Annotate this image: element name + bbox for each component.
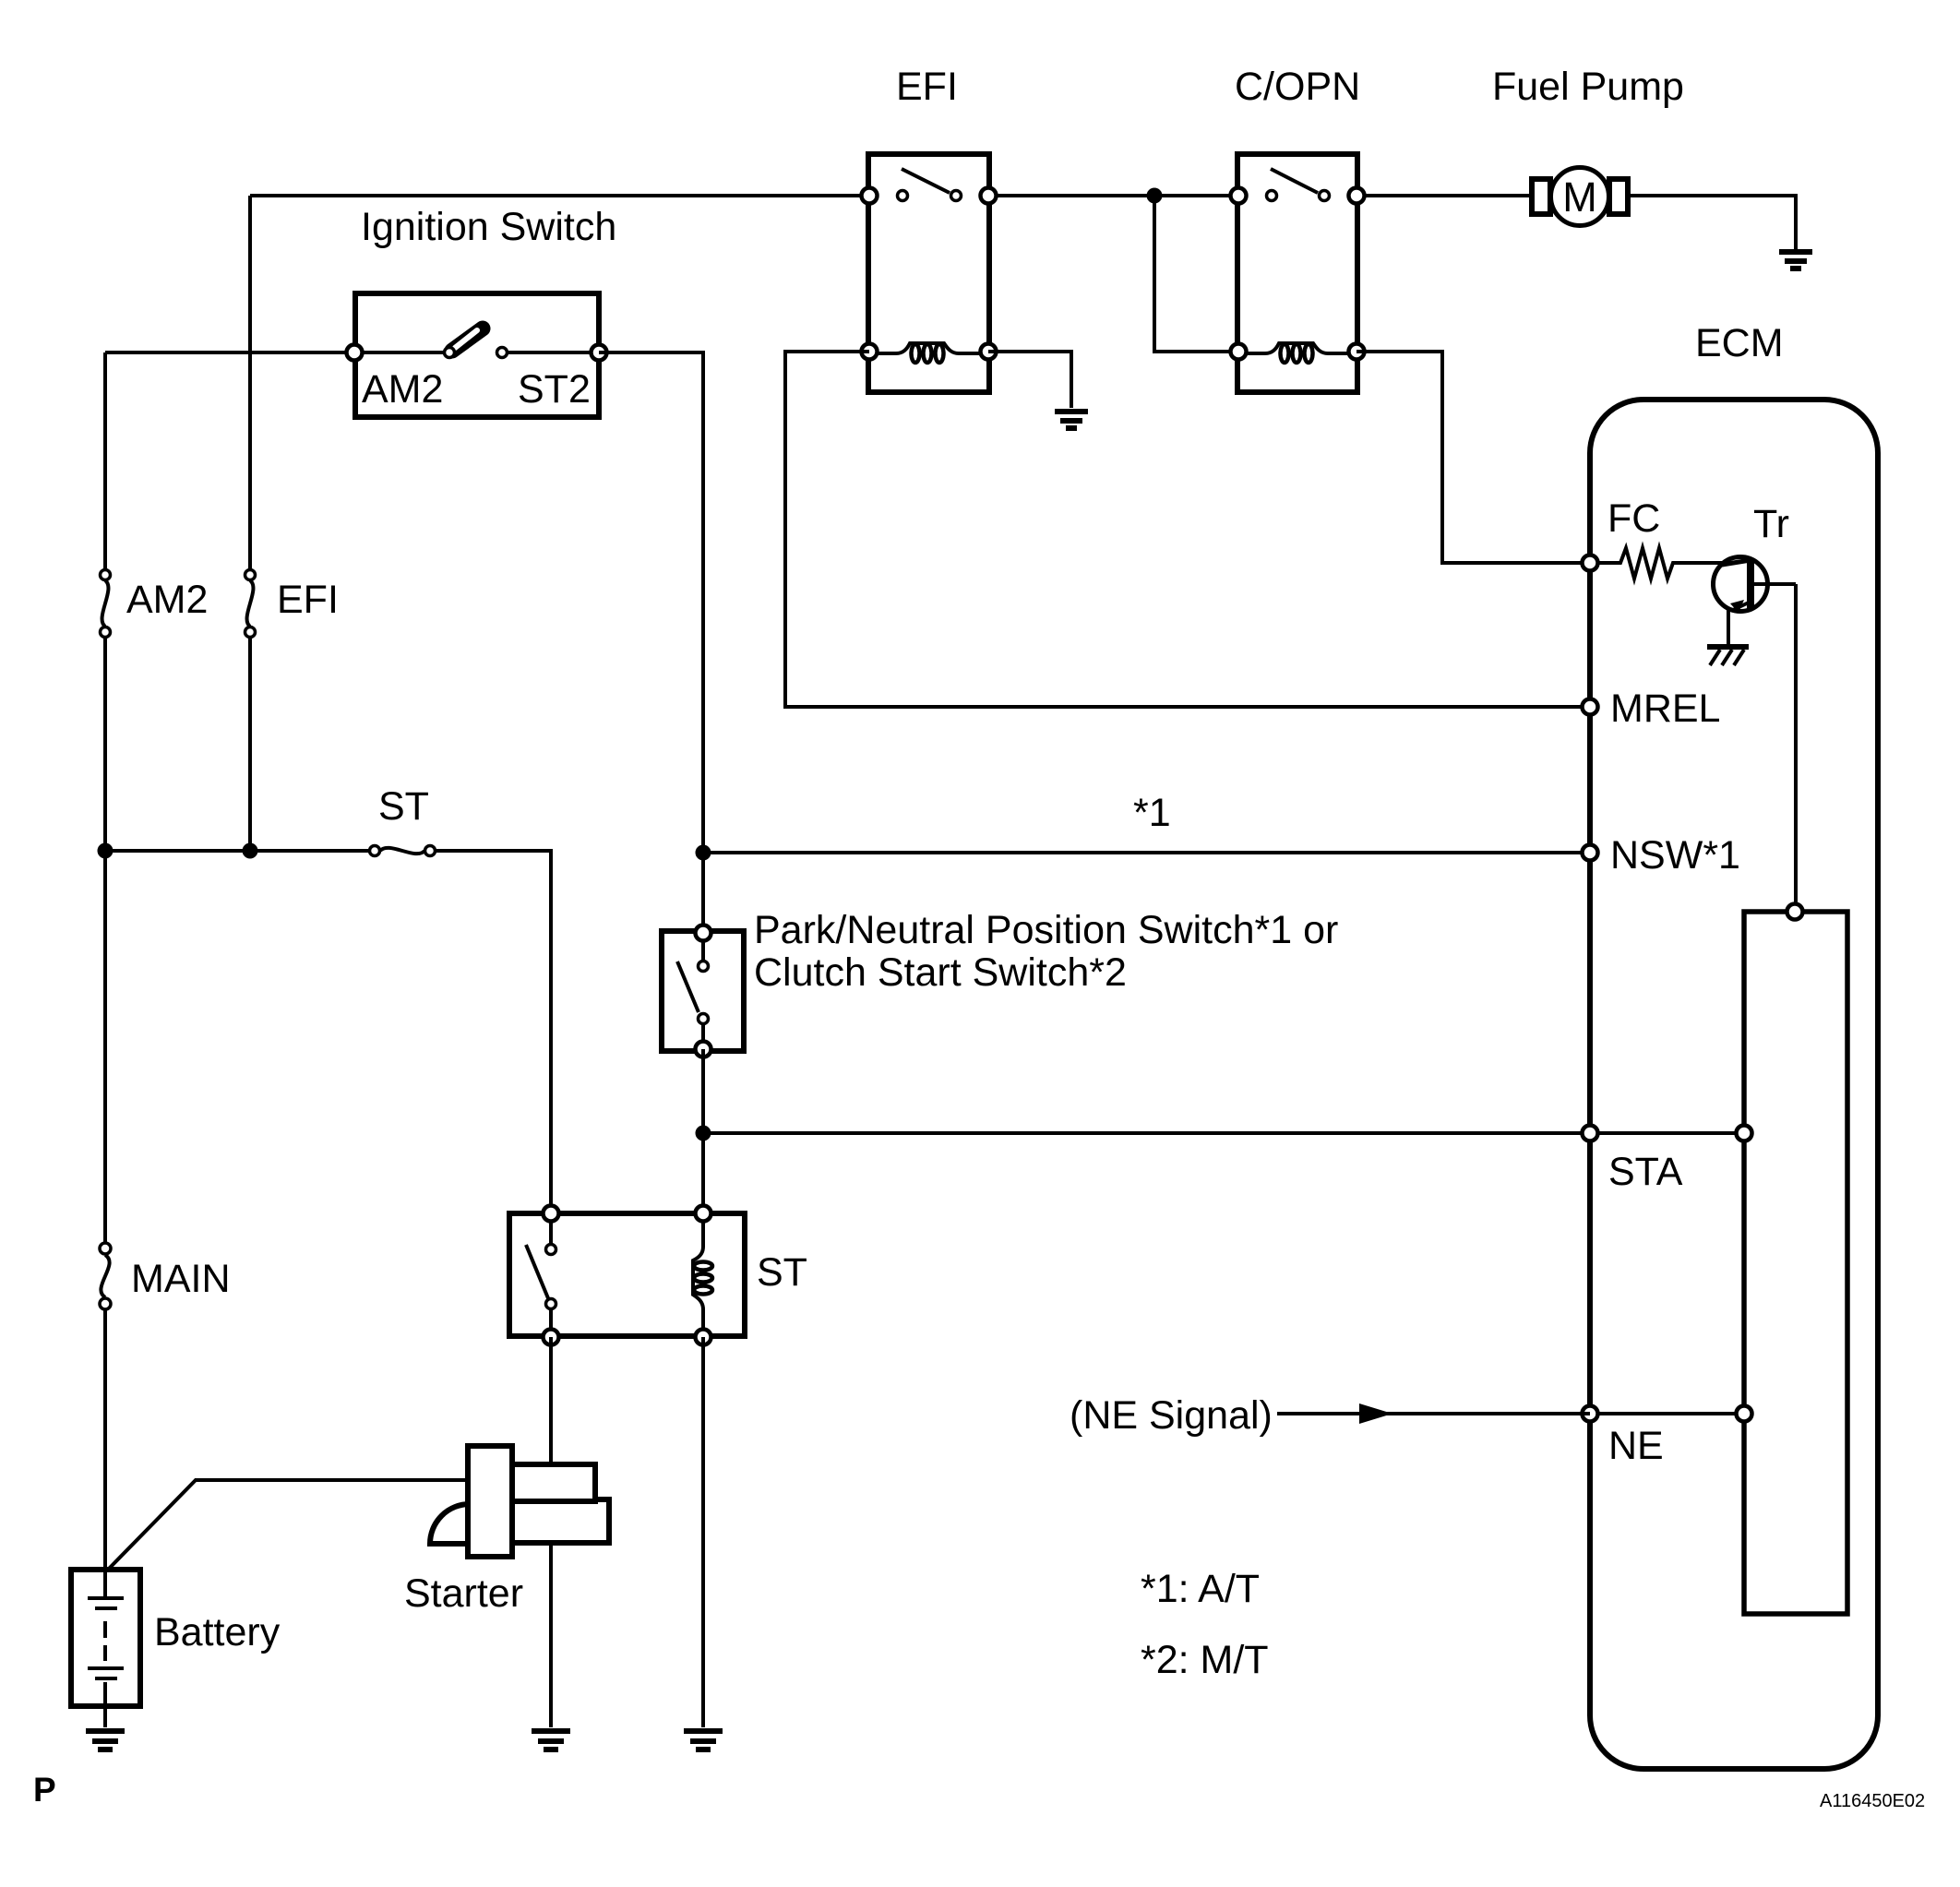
pin FC (1583, 555, 1598, 571)
relay C/OPN contact blade (1267, 169, 1330, 201)
svg-text:NSW*1: NSW*1 (1610, 833, 1740, 878)
starter assembly (430, 1446, 609, 1557)
wire NSW*1 line to ECM (703, 851, 1590, 854)
svg-text:*1: A/T: *1: A/T (1141, 1567, 1260, 1611)
pin MREL (1583, 699, 1598, 715)
ECM internal bus bar (1744, 912, 1847, 1614)
wire AM2 fuse to ST bus (103, 638, 107, 851)
ground Tr emitter (1707, 647, 1749, 665)
label Fuel Pump (1492, 65, 1684, 109)
wire NE pin to internal bus (1590, 1412, 1744, 1415)
relay C/OPN top terminals (1231, 188, 1365, 204)
relay EFI box (868, 154, 989, 392)
wire AM2 vertical from feed (103, 352, 107, 569)
relay ST terminals (544, 1206, 711, 1345)
label Starter (404, 1571, 523, 1616)
wire STA line to ECM (703, 1131, 1590, 1135)
label AM2 terminal (362, 367, 443, 412)
ground ST coil (684, 1731, 723, 1750)
relay C/OPN coil terminals (1231, 344, 1365, 360)
svg-text:Battery: Battery (154, 1610, 281, 1654)
svg-text:*1: *1 (1133, 791, 1171, 835)
wire STA pin to internal bus (1590, 1131, 1744, 1135)
fuse AM2 (101, 570, 111, 638)
label ST relay (757, 1250, 807, 1295)
wire Tr collector down to internal bus (1794, 584, 1798, 912)
svg-text:ST: ST (378, 784, 429, 829)
label *1 A/T (1141, 1567, 1260, 1611)
wire ST fuse to ST relay (436, 851, 551, 1213)
wire C/OPN relay to fuel pump motor (1357, 194, 1533, 197)
motor fuel pump (1532, 168, 1628, 226)
label Battery (154, 1610, 281, 1654)
wire C/OPN coil to FC pin (1356, 352, 1590, 563)
node junction dot left ST bus (98, 843, 114, 859)
relay EFI contact blade (898, 169, 962, 201)
node junction dot on top bus (1147, 188, 1163, 204)
label NE (1608, 1424, 1664, 1468)
label *2 M/T (1141, 1638, 1269, 1682)
relay ST coil (693, 1213, 712, 1337)
fuse EFI (245, 570, 256, 638)
wire EFI fuse to ST bus (248, 638, 252, 851)
transistor Tr (1714, 557, 1797, 647)
pin NSW*1 (1583, 845, 1598, 861)
pin STA (1583, 1126, 1598, 1141)
switch park/neutral blade (677, 933, 709, 1049)
wire battery cable to starter (108, 1480, 468, 1570)
label EFI fuse (277, 578, 339, 622)
svg-text:Tr: Tr (1753, 502, 1789, 546)
ground fuel pump (1779, 252, 1812, 269)
label Ignition Switch (361, 205, 616, 249)
switch park/neutral terminals (696, 926, 711, 1057)
node junction dot STA branch (696, 1126, 711, 1141)
node internal bus STA terminal (1737, 1126, 1752, 1141)
label FC (1607, 496, 1660, 541)
relay C/OPN coil (1238, 343, 1356, 363)
ground battery (86, 1731, 125, 1750)
svg-text:M: M (1562, 173, 1597, 221)
relay ST box (509, 1213, 745, 1336)
svg-text:C/OPN: C/OPN (1235, 65, 1360, 109)
svg-text:AM2: AM2 (126, 578, 208, 622)
svg-text:Clutch Start Switch*2: Clutch Start Switch*2 (754, 950, 1127, 995)
fuse ST (370, 846, 436, 856)
label STA (1608, 1150, 1683, 1194)
wire ST relay coil to ground (701, 1337, 705, 1727)
wire MAIN vertical battery feed (103, 851, 107, 1243)
switch park/neutral box (662, 931, 744, 1051)
svg-text:AM2: AM2 (362, 367, 443, 412)
ignition switch terminal ST2 (592, 345, 607, 361)
svg-text:NE: NE (1608, 1424, 1664, 1468)
wire EFI relay to C/OPN relay (988, 194, 1238, 197)
resistor FC (1590, 548, 1722, 579)
svg-text:EFI: EFI (277, 578, 339, 622)
wire ST bus to fuse (105, 849, 369, 853)
svg-text:P: P (33, 1771, 56, 1809)
label MREL (1610, 687, 1720, 731)
relay C/OPN box (1237, 154, 1357, 392)
svg-text:MAIN: MAIN (131, 1257, 231, 1301)
label ST fuse (378, 784, 429, 829)
label ST2 terminal (518, 367, 591, 412)
svg-text:(NE Signal): (NE Signal) (1070, 1393, 1273, 1438)
wire top bus from corner to EFI relay (250, 194, 869, 197)
svg-text:ST2: ST2 (518, 367, 591, 412)
wire AM2 feed horizontal to ignition switch (105, 351, 354, 354)
label MAIN (131, 1257, 231, 1301)
label C/OPN relay (1235, 65, 1360, 109)
svg-text:STA: STA (1608, 1150, 1683, 1194)
svg-text:ECM: ECM (1695, 321, 1784, 365)
node junction dot NSW branch (696, 845, 711, 861)
relay EFI coil terminals (862, 344, 997, 360)
label AM2 fuse (126, 578, 208, 622)
ignition switch terminal AM2 (347, 345, 363, 361)
label P (33, 1771, 56, 1809)
wire ST relay contact to starter and ground (549, 1337, 553, 1727)
label NE Signal (1070, 1393, 1273, 1438)
node internal bus top terminal (1787, 904, 1803, 920)
wire fuel pump motor to ground drop (1627, 196, 1796, 249)
node internal bus NE terminal (1737, 1406, 1752, 1422)
ignition switch box (355, 293, 599, 417)
relay ST contact blade (526, 1213, 556, 1337)
svg-text:Ignition Switch: Ignition Switch (361, 205, 616, 249)
ground starter line (532, 1731, 570, 1750)
wire EFI vertical feed from top bus (248, 196, 252, 569)
svg-text:MREL: MREL (1610, 687, 1720, 731)
label park/neutral switch (754, 908, 1338, 995)
wire junction down to C/OPN coil (1154, 196, 1238, 352)
svg-text:A116450E02: A116450E02 (1820, 1791, 1925, 1811)
node junction dot EFI column ST bus (243, 843, 258, 859)
wire EFI coil to ground (988, 352, 1071, 408)
fusible link MAIN (100, 1243, 111, 1309)
label EFI relay (896, 65, 958, 109)
wire NE signal arrow (1277, 1403, 1590, 1424)
pin NE (1583, 1406, 1598, 1422)
wire ST2 to park/neutral switch column (599, 352, 703, 933)
svg-text:*2: M/T: *2: M/T (1141, 1638, 1269, 1682)
ignition switch key lever (354, 328, 599, 358)
svg-text:Starter: Starter (404, 1571, 523, 1616)
label A116450E02 (1820, 1791, 1925, 1811)
label NSW*1 (1610, 833, 1740, 878)
svg-text:EFI: EFI (896, 65, 958, 109)
label *1 (1133, 791, 1171, 835)
wire MAIN to battery (103, 1309, 107, 1570)
relay EFI top terminals (862, 188, 997, 204)
ECM box (1590, 400, 1878, 1769)
label ECM (1695, 321, 1784, 365)
wire park/neutral to STA branch (701, 1049, 705, 1213)
relay EFI coil (869, 343, 988, 363)
wire battery to ground (103, 1706, 107, 1727)
svg-text:ST: ST (757, 1250, 807, 1295)
ground EFI relay (1055, 412, 1088, 428)
battery (71, 1570, 140, 1706)
svg-text:Fuel Pump: Fuel Pump (1492, 65, 1684, 109)
wire MREL from EFI coil to ECM (785, 352, 1590, 707)
svg-text:FC: FC (1607, 496, 1660, 541)
svg-text:Park/Neutral Position Switch*1: Park/Neutral Position Switch*1 or (754, 908, 1338, 952)
label Tr (1753, 502, 1789, 546)
